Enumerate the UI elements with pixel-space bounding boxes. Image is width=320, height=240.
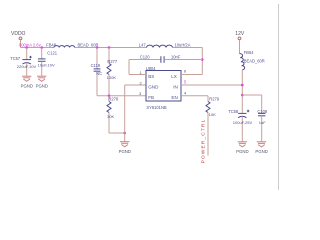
svg-text:FB: FB	[148, 95, 154, 100]
svg-text:L47: L47	[139, 43, 147, 48]
power flag 12V circle	[238, 37, 241, 40]
svg-text:R278: R278	[108, 96, 119, 101]
ground PGND under TC57	[22, 76, 31, 81]
ground PGND under IC	[120, 142, 129, 147]
ferrite bead FB48	[54, 46, 75, 48]
node junction TC57	[25, 46, 28, 49]
svg-text:FB48: FB48	[46, 42, 57, 47]
svg-text:C121: C121	[47, 51, 58, 56]
resistor R277	[107, 48, 111, 96]
ground PGND under TC58	[238, 142, 247, 147]
svg-text:POWER_CTRL: POWER_CTRL	[201, 119, 207, 164]
wire LX riser	[201, 48, 203, 75]
wire LX pin	[181, 74, 202, 76]
svg-text:100K: 100K	[107, 75, 117, 80]
svg-text:12V: 12V	[235, 31, 245, 37]
svg-text:U804: U804	[146, 66, 157, 71]
svg-text:220uF,10V: 220uF,10V	[17, 64, 37, 69]
wire main bus left	[21, 47, 55, 49]
svg-text:10uH/2A: 10uH/2A	[175, 43, 191, 48]
wire FB net	[97, 95, 146, 97]
node junction C120/LX	[201, 58, 204, 61]
wire 12V rail	[241, 70, 243, 114]
inductor L47	[147, 45, 173, 47]
svg-text:PGND: PGND	[119, 149, 131, 154]
svg-text:PGND: PGND	[21, 84, 33, 89]
svg-text:BEAD_60R: BEAD_60R	[244, 58, 265, 63]
svg-text:C120: C120	[140, 55, 151, 60]
capacitor C121	[38, 48, 46, 76]
svg-text:PGND: PGND	[36, 84, 48, 89]
svg-text:LX: LX	[171, 74, 177, 79]
svg-text:NC: NC	[96, 71, 102, 76]
wire bus middle	[74, 47, 147, 49]
svg-text:BEAD_60R: BEAD_60R	[78, 42, 99, 47]
node junction IN/rail	[241, 84, 244, 87]
node junction C119	[96, 46, 99, 49]
capacitor C108	[258, 113, 265, 141]
svg-text:VDDO: VDDO	[11, 31, 26, 37]
wire bus right	[173, 47, 203, 49]
wire 12V vertical	[239, 40, 241, 53]
op-amp U804 box	[146, 71, 181, 102]
svg-text:10nF: 10nF	[171, 55, 181, 60]
ground PGND under C121	[37, 76, 46, 81]
svg-text:BS: BS	[148, 74, 154, 79]
svg-text:TC58: TC58	[228, 109, 239, 114]
node junction FB divider	[108, 94, 111, 97]
capacitor C120	[161, 56, 202, 63]
node junction R278/GND	[123, 132, 126, 135]
wire GND pin net	[125, 85, 146, 142]
resistor R279	[206, 102, 210, 156]
svg-text:C119: C119	[91, 63, 101, 68]
wire C108 branch	[242, 95, 261, 113]
wire IN pin	[181, 84, 242, 86]
svg-text:GND: GND	[148, 85, 159, 90]
svg-text:1uF: 1uF	[259, 120, 267, 125]
svg-text:SY8101NB: SY8101NB	[146, 105, 167, 110]
svg-text:10uF,10V: 10uF,10V	[38, 62, 55, 67]
ground PGND under C108	[257, 142, 266, 147]
svg-text:TC57: TC57	[10, 56, 21, 61]
wire BS net	[129, 60, 161, 75]
ferrite bead FB54	[240, 54, 245, 70]
svg-text:600mA 2.6v: 600mA 2.6v	[19, 43, 42, 48]
power flag VDDO circle	[19, 37, 22, 40]
svg-text:FB54: FB54	[244, 50, 255, 55]
capacitor TC58	[238, 110, 249, 142]
svg-text:10K: 10K	[209, 112, 217, 117]
svg-text:R279: R279	[209, 96, 220, 101]
capacitor C119	[94, 48, 101, 96]
node junction C108 branch	[241, 94, 244, 97]
node junction R277	[108, 46, 111, 49]
svg-text:100uF,25V: 100uF,25V	[233, 120, 253, 125]
svg-text:C108: C108	[257, 109, 268, 114]
svg-text:PGND: PGND	[255, 149, 267, 154]
svg-text:R277: R277	[107, 59, 118, 64]
resistor R278	[107, 96, 125, 133]
svg-text:IN: IN	[173, 85, 178, 90]
svg-text:EN: EN	[171, 95, 177, 100]
wire VDDO vertical	[20, 40, 22, 47]
sheet border	[278, 4, 280, 190]
svg-text:30K: 30K	[107, 114, 115, 119]
wire EN pin	[181, 96, 208, 102]
svg-text:PGND: PGND	[236, 149, 248, 154]
node junction C121	[40, 46, 43, 49]
capacitor TC57	[22, 48, 31, 76]
